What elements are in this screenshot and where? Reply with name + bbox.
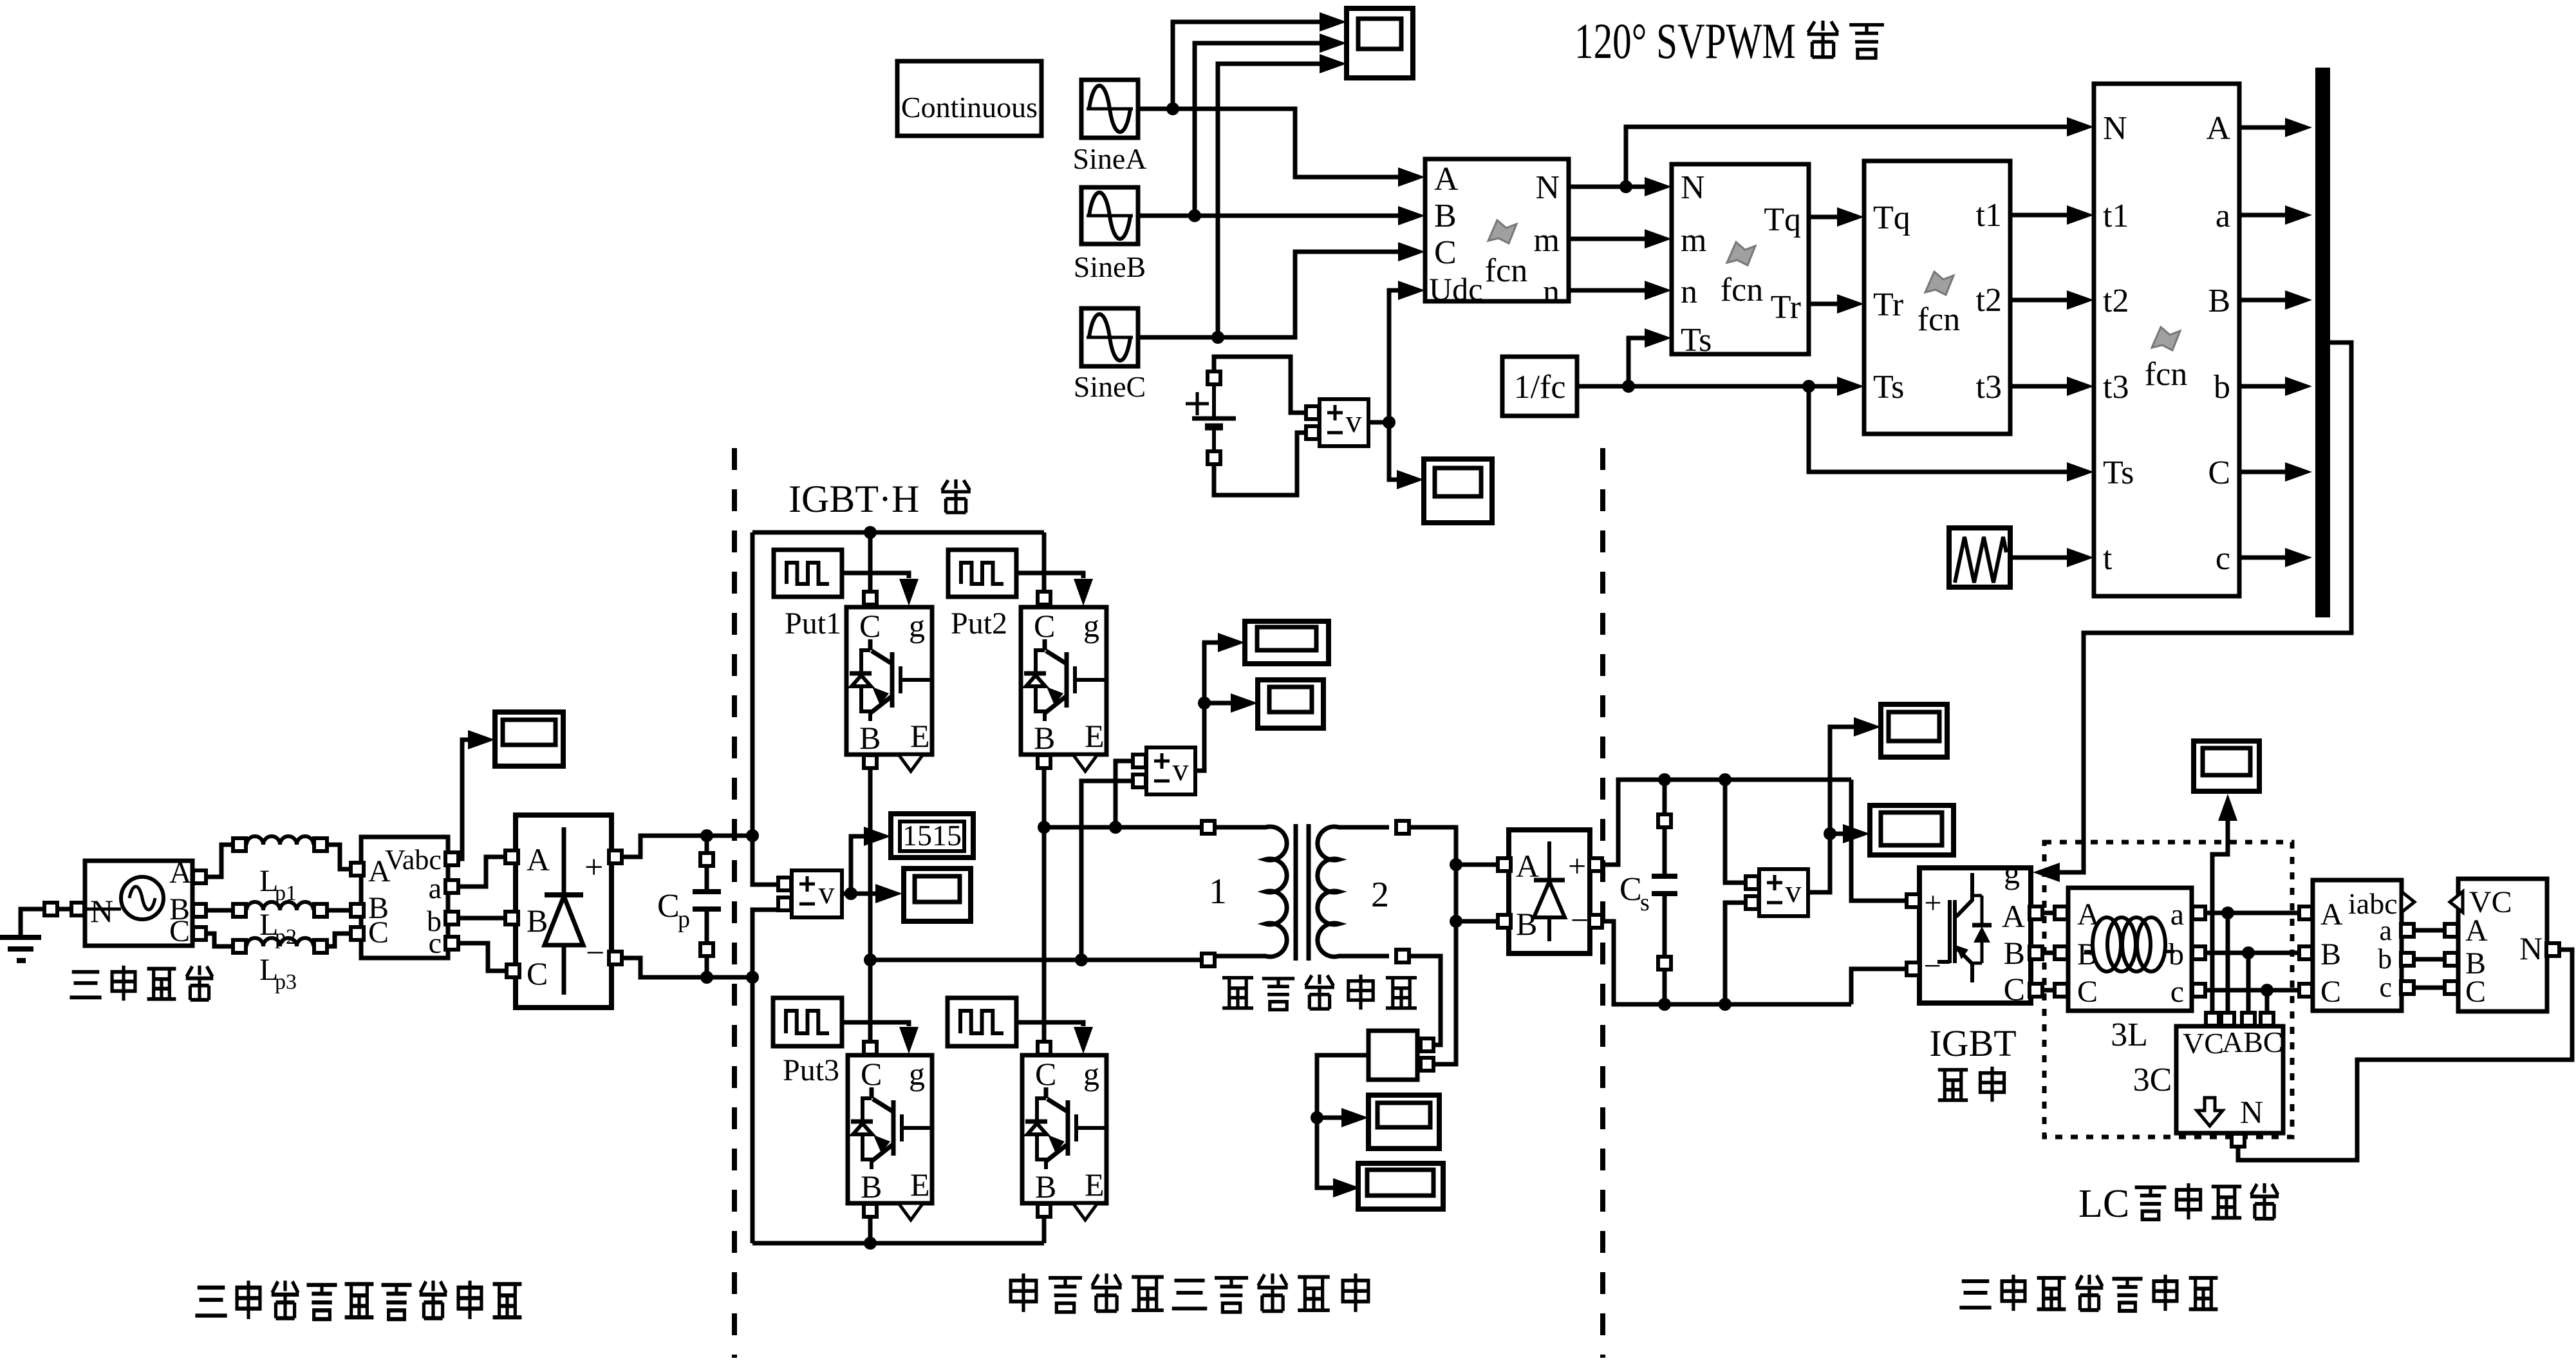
wire fcn3.t3 to fcn4.t3 — [2010, 377, 2094, 396]
svg-text:s: s — [1640, 889, 1650, 916]
wire triangle source to fcn4.t — [2010, 548, 2094, 567]
IGBT module block — [1907, 854, 2042, 1007]
wire rectifier1 minus to DC bus — [622, 958, 752, 977]
triangle wave source — [1949, 528, 2010, 587]
svg-text:g: g — [909, 1056, 925, 1092]
svg-text:+: + — [584, 849, 603, 886]
sine source SineB — [1074, 187, 1146, 283]
svg-text:1515: 1515 — [902, 819, 962, 852]
wire DC bus 2 to IGBT module minus — [1851, 969, 1906, 1004]
svg-text:ABC: ABC — [2222, 1026, 2283, 1058]
transformer core — [1296, 824, 1309, 961]
svg-text:Put2: Put2 — [951, 606, 1007, 641]
node V2 output junction — [1383, 416, 1395, 429]
wire 3L.c to iabc.C — [2206, 988, 2300, 993]
svg-text:c: c — [429, 926, 442, 959]
node V4 output junction — [1198, 697, 1211, 709]
svg-text:Tr: Tr — [1873, 286, 1903, 323]
svg-text:t3: t3 — [2103, 369, 2129, 406]
scope Scope7 — [1368, 1095, 1439, 1149]
svg-text:N: N — [2519, 930, 2543, 966]
svg-text:120° SVPWM: 120° SVPWM — [1574, 13, 1796, 69]
svg-text:−: − — [586, 935, 604, 971]
svg-text:b: b — [2214, 369, 2230, 406]
wire Put2 to IGBT2 gate — [1016, 573, 1093, 606]
svg-text:SineC: SineC — [1074, 370, 1146, 403]
wire V3 output junction — [842, 887, 857, 900]
display block 1515 — [891, 814, 973, 858]
wire fcn2.Tq to fcn3.Tq — [1809, 207, 1864, 227]
wire IGBT4.B to bottom bus — [1042, 1217, 1047, 1243]
svg-text:g: g — [1083, 1056, 1099, 1092]
svg-text:Continuous: Continuous — [901, 91, 1038, 124]
transformer primary winding — [1215, 827, 1287, 957]
label intermediate isolation transformer stage — [1011, 1273, 1368, 1312]
constant block 1/fc — [1502, 357, 1577, 416]
three-phase source block — [85, 856, 206, 948]
wire V3 to Scope6 — [851, 884, 902, 903]
scope Scope3 (Vabc) — [495, 712, 563, 766]
wire V3 to display — [851, 827, 891, 894]
voltmeter V4 (transformer primary) — [1133, 747, 1195, 794]
svg-text:Tq: Tq — [1873, 200, 1910, 236]
wire 3L.b to iabc.B — [2206, 951, 2300, 955]
wire IGBT.C to 3L.C — [2043, 988, 2054, 993]
mux bar — [2315, 68, 2330, 617]
wire fcn1.n to fcn2.n — [1569, 281, 1672, 300]
svg-text:g: g — [2004, 854, 2020, 890]
svg-text:a: a — [2170, 897, 2184, 932]
wire fcn3.t1 to fcn4.t1 — [2010, 205, 2094, 225]
wire Lp1 to Vabc.A — [328, 845, 350, 869]
powergui block Continuous — [897, 61, 1041, 136]
node 1/fc junction A — [1622, 380, 1635, 393]
svg-text:N: N — [2103, 110, 2127, 147]
wire phase b to 3C — [2246, 953, 2251, 1012]
wire 3C VC output to scope — [2212, 794, 2237, 1012]
svg-text:2: 2 — [1371, 875, 1389, 915]
diode rectifier bridge 1 — [505, 815, 622, 1008]
svg-text:E: E — [910, 718, 930, 754]
svg-text:c: c — [2379, 971, 2392, 1003]
wire Vabc.b to rectifier.B — [459, 916, 505, 921]
label san-xiang-dian-yuan (three-phase source) — [70, 966, 213, 1001]
wire SineA to fcn1.A — [1138, 109, 1425, 187]
svg-text:t3: t3 — [1976, 369, 2002, 406]
svg-text:A: A — [2320, 897, 2343, 932]
svg-text:p: p — [678, 906, 690, 933]
svg-text:SineB: SineB — [1074, 250, 1146, 283]
svg-text:m: m — [1681, 222, 1706, 259]
svg-text:c: c — [2216, 540, 2230, 577]
svg-text:v: v — [1346, 403, 1362, 439]
svg-text:SineA: SineA — [1073, 142, 1147, 175]
wire fcn4.c to mux — [2239, 548, 2312, 567]
wire fcn4.B to mux — [2239, 290, 2312, 310]
node V5 bottom junction — [1719, 998, 1731, 1011]
svg-text:Tq: Tq — [1764, 202, 1801, 238]
svg-text:n: n — [1681, 274, 1697, 310]
svg-text:v: v — [1786, 873, 1802, 909]
svg-text:b: b — [2169, 937, 2184, 971]
svg-text:N: N — [1681, 169, 1705, 206]
scope Scope1 (sine waves) — [1347, 8, 1413, 78]
node top bus junction — [864, 526, 877, 539]
node primary bottom voltmeter junction — [1075, 953, 1088, 966]
wire rectifier2 minus to DC bus 2 — [1603, 921, 1851, 1004]
svg-text:Vabc: Vabc — [385, 844, 442, 876]
function block fcn3 (Tq,Tr,Ts to t1,t2,t3) — [1864, 161, 2010, 434]
wire VC.N to 3C.N — [2238, 950, 2572, 1160]
scope Scope10 — [1870, 805, 1954, 855]
wire V4 output up — [1195, 633, 1245, 771]
svg-text:B: B — [1035, 1169, 1056, 1205]
svg-text:−: − — [1923, 949, 1941, 983]
node primary top bus junction — [1038, 821, 1050, 834]
svg-text:t: t — [2103, 540, 2113, 577]
scope Scope8 — [1358, 1163, 1443, 1209]
IGBT block 1 — [846, 607, 932, 771]
node ground port — [44, 903, 84, 915]
svg-text:C: C — [527, 955, 548, 991]
svg-text:p3: p3 — [275, 970, 297, 994]
svg-text:C: C — [1619, 871, 1642, 908]
wire Put1 to IGBT1 gate — [841, 573, 919, 606]
svg-text:IGBT: IGBT — [1929, 1022, 2016, 1064]
wire junction to rectifier2.B — [1456, 919, 1497, 924]
wire IGBT1.B down to primary bus — [868, 769, 873, 1041]
scope Scope6 — [904, 868, 971, 921]
wire Vabc.a to rectifier.A — [459, 857, 505, 887]
node phase a junction — [2221, 906, 2234, 919]
node SineC branch junction — [1211, 331, 1224, 344]
svg-text:VC: VC — [2183, 1027, 2224, 1060]
stage separator dashed line right — [1600, 448, 1605, 1358]
svg-text:B: B — [859, 720, 881, 756]
node primary top voltmeter junction — [1109, 821, 1122, 834]
IGBT block 4 — [1022, 1042, 1106, 1220]
svg-text:c: c — [2170, 975, 2184, 1009]
function block fcn2 (N,m,n,Ts to Tq,Tr) — [1672, 164, 1809, 359]
wire phase c to 3C — [2265, 990, 2270, 1012]
wire IGBT.B to 3L.B — [2043, 951, 2054, 955]
node 1/fc junction B — [1802, 380, 1815, 393]
inductor Lp1 — [233, 836, 327, 905]
scope Scope11 — [2194, 741, 2259, 791]
wire IGBT2.B down to primary bus — [1042, 769, 1047, 1041]
wire 1/fc branch to fcn2.Ts — [1629, 328, 1672, 386]
DC source battery — [1186, 371, 1236, 464]
wire to Scope7 — [1317, 1108, 1368, 1127]
wire rectifier2 plus to DC bus 2 — [1603, 780, 1851, 865]
svg-text:+: + — [1568, 848, 1586, 884]
IGBT block 2 — [1021, 607, 1106, 771]
node Cs bottom junction — [1658, 998, 1671, 1011]
label three-phase uncontrolled rectifier input stage — [195, 1281, 521, 1319]
svg-text:b: b — [2378, 943, 2392, 975]
wire SineC branch to Scope1 — [1218, 54, 1347, 337]
wire phase a to 3C — [2226, 913, 2230, 1012]
label IGBT H bridge — [789, 478, 971, 520]
stage separator dashed line left — [732, 448, 737, 1358]
wire SineB branch to Scope1 — [1195, 33, 1347, 216]
svg-text:N: N — [90, 893, 113, 929]
svg-text:Put3: Put3 — [783, 1053, 839, 1087]
svg-text:N: N — [1535, 169, 1560, 206]
wire IGBT3.B to bottom bus — [868, 1217, 873, 1243]
svg-text:g: g — [1083, 608, 1099, 644]
svg-text:N: N — [2240, 1094, 2263, 1130]
svg-text:E: E — [1085, 1167, 1105, 1203]
node secondary B junction — [1450, 915, 1462, 928]
svg-text:Udc: Udc — [1429, 271, 1482, 307]
svg-text:C: C — [2077, 975, 2098, 1009]
function block fcn4 (N,t1,t2,t3,Ts,t to A,a,B,b,C,c) — [2094, 84, 2239, 596]
scope Scope5 — [1258, 680, 1323, 728]
wire junction to rectifier2.A — [1456, 863, 1497, 867]
svg-text:a: a — [2216, 198, 2230, 234]
measurement block secondary — [1368, 1031, 1433, 1080]
wire source.C to Lp3 — [207, 934, 232, 946]
svg-text:B: B — [2320, 937, 2341, 971]
inductor Lp3 — [233, 938, 327, 994]
wire IGBT.A to 3L.A — [2043, 911, 2054, 915]
wire secondary measure output — [1317, 1055, 1368, 1197]
pulse generator Put4 — [947, 998, 1016, 1046]
svg-text:C: C — [1034, 608, 1055, 644]
svg-text:m: m — [1534, 222, 1560, 259]
diode rectifier bridge 2 — [1498, 830, 1602, 953]
svg-text:fcn: fcn — [1721, 272, 1763, 308]
svg-text:C: C — [859, 608, 881, 644]
wire SineC to fcn1.C — [1138, 242, 1425, 337]
svg-text:B: B — [1516, 906, 1537, 942]
IGBT block 3 — [848, 1042, 932, 1220]
svg-text:1/fc: 1/fc — [1514, 369, 1566, 406]
inductor Lp2 — [233, 902, 327, 949]
wire V5 minus — [1725, 903, 1745, 1004]
pulse generator Put1 — [774, 550, 842, 641]
svg-text:C: C — [657, 888, 680, 925]
svg-text:Ts: Ts — [2103, 455, 2134, 491]
capacitor Cp — [657, 836, 721, 977]
svg-text:3C: 3C — [2133, 1062, 2172, 1098]
node Cp bottom junction — [700, 971, 713, 984]
wire V5 plus — [1725, 780, 1745, 883]
node bottom bus junction — [864, 1237, 877, 1250]
wire primary bottom bus — [870, 953, 1215, 966]
svg-text:a: a — [429, 872, 442, 905]
wire source.A to Lp1 — [207, 845, 232, 877]
svg-text:Ts: Ts — [1681, 322, 1712, 359]
wire fcn1.N to fcn2.N — [1569, 177, 1672, 196]
wire V5 to Scope10 — [1830, 824, 1870, 843]
svg-text:LC: LC — [2078, 1182, 2129, 1226]
svg-text:C: C — [2320, 975, 2341, 1009]
svg-text:A: A — [2465, 914, 2488, 948]
svg-text:E: E — [1085, 718, 1105, 754]
svg-text:fcn: fcn — [1485, 252, 1527, 289]
svg-text:v: v — [1173, 751, 1189, 787]
svg-text:Tr: Tr — [1771, 289, 1801, 326]
wire rectifier1 plus to DC bus — [622, 836, 752, 857]
wire battery minus to V2 — [1214, 433, 1305, 495]
svg-text:A: A — [2206, 110, 2230, 147]
wire V5 output up — [1808, 717, 1881, 892]
pulse generator Put2 — [948, 550, 1016, 641]
node V5 top junction — [1719, 773, 1731, 786]
wire fcn4.A to mux — [2239, 118, 2312, 137]
svg-text:fcn: fcn — [2145, 356, 2187, 393]
svg-text:E: E — [910, 1167, 930, 1203]
svg-text:B: B — [861, 1169, 882, 1205]
function block fcn1 (A,B,C,Udc to N,m,n) — [1425, 159, 1569, 310]
wire 1/fc branch to fcn4.Ts — [1809, 386, 2094, 482]
wire V2 output to fcn1.Udc — [1368, 281, 1425, 422]
node phase c junction — [2261, 984, 2273, 997]
scope Scope9 — [1881, 704, 1947, 757]
wire iabc.a to VC.A — [2414, 928, 2444, 933]
load block VC — [2445, 879, 2559, 1011]
wire fcn4.b to mux — [2239, 377, 2312, 396]
svg-text:A: A — [169, 856, 192, 890]
wire fcn3.t2 to fcn4.t2 — [2010, 290, 2094, 310]
svg-text:C: C — [2465, 975, 2486, 1009]
scope Scope4 — [1245, 621, 1329, 664]
svg-text:a: a — [2379, 915, 2392, 946]
voltmeter V3 (DC bus) — [778, 870, 842, 917]
wire Put3 to IGBT3 gate — [842, 1022, 919, 1054]
label IGBT module — [1929, 1022, 2016, 1102]
wire top bus to IGBT2.C — [1038, 532, 1050, 605]
transformer secondary winding — [1318, 821, 1409, 962]
svg-text:t1: t1 — [1976, 197, 2002, 234]
wire 1/fc to fcn3.Ts — [1577, 377, 1864, 396]
wire 3L.a to iabc.A — [2206, 911, 2300, 915]
svg-text:g: g — [909, 608, 925, 644]
measurement block Vabc — [351, 837, 458, 959]
voltmeter V5 (Cs) — [1746, 869, 1808, 916]
wire top bus to IGBT1.C — [864, 532, 877, 605]
label 3L — [2111, 1017, 2148, 1053]
wire fcn4.C to mux — [2239, 462, 2312, 482]
svg-text:B: B — [1434, 198, 1457, 234]
svg-text:Ts: Ts — [1873, 369, 1904, 406]
ground symbol — [0, 909, 44, 961]
wire Vabc output to scope — [459, 730, 495, 859]
wire iabc.c to VC.C — [2414, 986, 2444, 990]
wire fcn2.Tr to fcn3.Tr — [1809, 294, 1864, 314]
pulse generator Put3 — [773, 998, 842, 1087]
node DC bus top junction — [746, 829, 759, 842]
svg-text:C: C — [861, 1056, 882, 1092]
wire V4 output to Scope5 — [1204, 693, 1258, 713]
svg-text:t1: t1 — [2103, 198, 2129, 234]
svg-text:fcn: fcn — [1918, 301, 1960, 338]
label 3C — [2133, 1062, 2172, 1098]
node SineA branch junction — [1166, 102, 1179, 115]
svg-text:C: C — [368, 915, 389, 950]
svg-text:C: C — [2208, 455, 2230, 491]
sine source SineC — [1074, 308, 1146, 403]
wire battery plus to V2 — [1214, 357, 1305, 413]
svg-text:B: B — [2208, 283, 2230, 319]
wire H-bridge top bus — [752, 530, 1044, 535]
svg-text:t2: t2 — [1976, 282, 2002, 319]
svg-text:B: B — [527, 903, 548, 939]
wire SineA branch to Scope1 — [1173, 12, 1347, 109]
svg-text:−: − — [1571, 902, 1589, 938]
wire iabc.b to VC.B — [2414, 957, 2444, 962]
svg-text:v: v — [819, 874, 835, 910]
label three-phase variable frequency output stage — [1959, 1275, 2217, 1311]
title 120 SVPWM algorithm label — [1574, 13, 1884, 69]
wire fcn4.a to mux — [2239, 205, 2312, 225]
node Cs top junction — [1658, 773, 1671, 786]
capacitor bank block 3C — [2176, 1013, 2283, 1147]
current measurement block iabc — [2299, 880, 2414, 1011]
wire mux output feedback to IGBT module gate — [2033, 343, 2351, 882]
svg-text:1: 1 — [1209, 872, 1227, 912]
wire V4 plus to primary top bus — [1115, 761, 1132, 827]
label gao-pin-bian-ya-qi (HF transformer) — [1222, 975, 1417, 1010]
wire H-bridge bottom bus — [752, 1241, 1044, 1246]
svg-text:A: A — [1434, 161, 1459, 198]
scope Scope2 (Udc) — [1424, 459, 1492, 523]
wire Lp2 to Vabc.B — [328, 908, 350, 913]
capacitor Cs — [1619, 780, 1677, 1004]
wire source.B to Lp2 — [207, 908, 232, 913]
node phase b junction — [2242, 946, 2255, 959]
wire DC bus left vertical upper — [752, 532, 778, 885]
svg-text:t2: t2 — [2103, 283, 2129, 319]
node Cp top junction — [700, 829, 713, 842]
wire V2 output to Scope2 — [1389, 422, 1424, 489]
svg-text:C: C — [1035, 1056, 1056, 1092]
wire V4 minus to primary bottom bus — [1081, 781, 1132, 960]
node secondary A junction — [1450, 858, 1462, 871]
wire fcn1.m to fcn2.m — [1569, 229, 1672, 249]
svg-text:B: B — [2004, 935, 2025, 971]
svg-text:C: C — [169, 914, 190, 948]
node secondary scope junction — [1311, 1111, 1323, 1124]
svg-text:A: A — [2002, 898, 2025, 934]
wire fcn1.N branch to fcn4.N — [1626, 117, 2094, 187]
svg-text:+: + — [1924, 886, 1941, 920]
label LC filter module — [2078, 1182, 2279, 1226]
voltmeter V2 (battery) — [1306, 399, 1368, 446]
node SineB branch junction — [1188, 209, 1201, 222]
wire secondary top to rectifier2 — [1410, 827, 1456, 1064]
label transformer winding 2 — [1371, 875, 1389, 915]
wire secondary bottom to measure — [1410, 956, 1441, 1045]
wire DC bus 2 to IGBT module plus — [1851, 780, 1906, 901]
svg-text:C: C — [1434, 234, 1457, 271]
wire DC bus left vertical lower — [752, 910, 778, 1243]
sine source SineA — [1073, 80, 1147, 175]
svg-text:C: C — [2004, 971, 2025, 1007]
svg-text:IGBT·H: IGBT·H — [789, 478, 919, 520]
node fcn1.N junction — [1619, 180, 1632, 193]
wire SineB to fcn1.B — [1138, 206, 1425, 225]
svg-text:n: n — [1543, 274, 1560, 310]
node DC bus bottom junction — [746, 971, 759, 984]
wire Put4 to IGBT4 gate — [1016, 1022, 1093, 1054]
label transformer winding 1 — [1209, 872, 1227, 912]
svg-text:3L: 3L — [2111, 1017, 2148, 1053]
inductor block 3L — [2055, 888, 2205, 1011]
svg-text:A: A — [527, 841, 550, 878]
